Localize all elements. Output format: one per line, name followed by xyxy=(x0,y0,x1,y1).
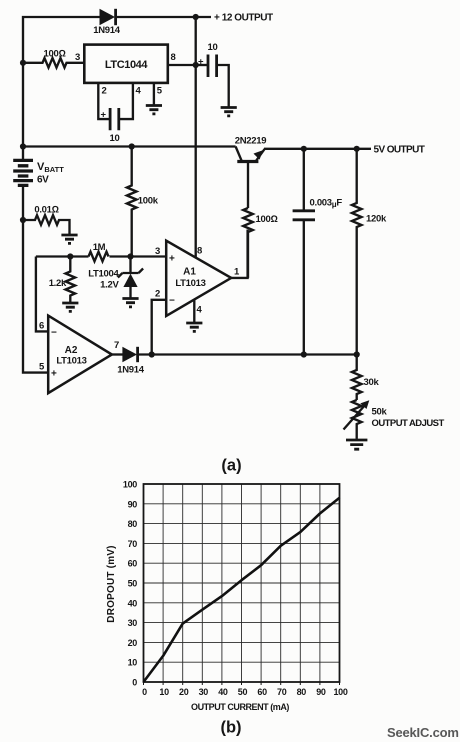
pin 2 wire xyxy=(98,83,109,119)
svg-text:40: 40 xyxy=(128,598,138,608)
svg-text:LTC1044: LTC1044 xyxy=(105,59,149,71)
IC U1 LTC1044 xyxy=(84,45,168,83)
svg-text:100Ω: 100Ω xyxy=(256,214,278,225)
ground (LT1004) xyxy=(122,299,138,307)
svg-text:DROPOUT (mV): DROPOUT (mV) xyxy=(106,545,117,622)
svg-text:6V: 6V xyxy=(37,175,49,186)
svg-text:60: 60 xyxy=(257,687,267,697)
resistor 1.2k xyxy=(66,257,76,303)
svg-text:100: 100 xyxy=(123,480,137,490)
graph y labels xyxy=(123,480,137,688)
svg-text:90: 90 xyxy=(128,499,138,509)
svg-text:4: 4 xyxy=(197,305,203,316)
svg-text:3: 3 xyxy=(75,52,80,63)
svg-text:10: 10 xyxy=(208,42,218,53)
svg-text:4: 4 xyxy=(136,86,142,97)
svg-text:0.01Ω: 0.01Ω xyxy=(34,205,58,216)
svg-text:LT1013: LT1013 xyxy=(56,356,86,367)
node 1.2k top xyxy=(67,253,73,259)
node battery top xyxy=(20,143,26,149)
wire: feedback to A2 pin 6 xyxy=(36,257,48,332)
svg-text:6: 6 xyxy=(39,321,44,332)
diode 1N914 (A2 output) xyxy=(122,347,137,362)
svg-text:1.2V: 1.2V xyxy=(100,280,119,291)
wire A2 output xyxy=(112,353,123,355)
svg-text:+: + xyxy=(51,369,57,380)
node +12 junction xyxy=(193,14,199,20)
svg-text:100Ω: 100Ω xyxy=(44,49,66,60)
svg-text:1N914: 1N914 xyxy=(93,25,121,36)
wire: bottom feedback rail xyxy=(138,353,357,355)
svg-text:40: 40 xyxy=(218,687,228,697)
svg-text:5V OUTPUT: 5V OUTPUT xyxy=(374,145,425,156)
svg-text:10: 10 xyxy=(128,658,138,668)
svg-text:10: 10 xyxy=(159,687,169,697)
resistor 0.01ohm xyxy=(23,215,70,234)
svg-text:8: 8 xyxy=(197,246,202,257)
svg-text:7: 7 xyxy=(114,340,119,351)
wire A1 pin 1 output up to 100 ohm xyxy=(231,230,247,278)
svg-text:30: 30 xyxy=(199,687,209,697)
node 0.003 bottom xyxy=(301,351,307,357)
svg-text:20: 20 xyxy=(179,687,189,697)
wire A1 pin 2 xyxy=(152,300,167,355)
graph x labels xyxy=(142,687,348,697)
svg-text:1M: 1M xyxy=(93,242,106,253)
node pin8/+12 vertical junction xyxy=(193,62,199,68)
pin 5 wire xyxy=(153,83,155,105)
svg-text:50: 50 xyxy=(128,579,138,589)
graph border xyxy=(144,484,340,682)
svg-text:100k: 100k xyxy=(138,196,159,207)
svg-text:70: 70 xyxy=(128,539,138,549)
svg-text:−: − xyxy=(51,328,57,339)
svg-text:SeekIC.com: SeekIC.com xyxy=(387,725,459,740)
node battery minus / 0.01 junction xyxy=(20,217,26,223)
ground (0.01 ohm) xyxy=(61,235,77,243)
resistor 100k xyxy=(127,147,137,257)
svg-text:A1: A1 xyxy=(183,267,196,278)
svg-text:80: 80 xyxy=(128,519,138,529)
svg-text:60: 60 xyxy=(128,559,138,569)
graph curve xyxy=(144,498,340,682)
capacitor 0.003uF xyxy=(303,149,305,211)
svg-text:2N2219: 2N2219 xyxy=(235,136,266,147)
svg-text:OUTPUT CURRENT (mA): OUTPUT CURRENT (mA) xyxy=(191,702,289,712)
svg-text:+ 12 OUTPUT: + 12 OUTPUT xyxy=(214,13,273,24)
svg-text:+: + xyxy=(198,57,204,68)
resistor 100ohm (top) xyxy=(23,58,84,68)
capacitor 10 (under LTC1044, polarized) xyxy=(110,108,119,130)
ground (1.2k) xyxy=(62,303,78,311)
node 120k/30k junction xyxy=(354,351,360,357)
svg-text:30: 30 xyxy=(128,618,138,628)
svg-text:50k: 50k xyxy=(372,407,388,418)
node: left rail / 100ohm junction xyxy=(20,60,26,66)
svg-text:50: 50 xyxy=(238,687,248,697)
graph (b): grid xyxy=(144,484,340,682)
svg-text:0: 0 xyxy=(132,678,137,688)
svg-text:20: 20 xyxy=(128,638,138,648)
wire: 5V output rail xyxy=(264,148,371,150)
svg-text:(a): (a) xyxy=(221,457,241,475)
svg-text:3: 3 xyxy=(155,246,160,257)
potentiometer 50k OUTPUT ADJUST xyxy=(352,400,362,439)
svg-text:VBATT: VBATT xyxy=(37,161,64,174)
wire: +12 vertical feed to A1 pin 8 xyxy=(195,17,197,257)
node LT1004 top xyxy=(127,253,133,259)
pin 8 wire xyxy=(168,64,196,66)
graph ticks xyxy=(144,682,340,685)
svg-text:1N914: 1N914 xyxy=(117,365,145,376)
svg-text:90: 90 xyxy=(316,687,326,697)
capacitor 10 (top right, polarized) xyxy=(196,64,208,66)
resistor 30k xyxy=(352,355,362,401)
node pin2 junction xyxy=(149,351,155,357)
wire: battery minus down to A2 pin 5 xyxy=(23,220,48,373)
svg-text:LT1013: LT1013 xyxy=(175,278,205,289)
svg-text:100: 100 xyxy=(333,687,347,697)
svg-text:5: 5 xyxy=(157,86,163,97)
svg-text:5: 5 xyxy=(39,362,45,373)
svg-text:2: 2 xyxy=(155,289,160,300)
svg-text:2: 2 xyxy=(102,86,107,97)
svg-text:0: 0 xyxy=(142,687,147,697)
ground (pot) xyxy=(346,440,367,449)
ground (top right cap) xyxy=(221,108,237,116)
ground (pin 5) xyxy=(146,106,162,114)
svg-text:8: 8 xyxy=(171,52,176,63)
wire: main 6V rail xyxy=(23,145,236,147)
resistor 120k xyxy=(352,149,362,355)
wire A1 pin 4 + ground xyxy=(193,300,195,322)
svg-text:30k: 30k xyxy=(364,377,380,388)
svg-text:+: + xyxy=(169,254,175,265)
wire: top rail from left corner to +12 node xyxy=(23,17,100,160)
svg-text:−: − xyxy=(169,296,175,307)
resistor 100ohm (base) xyxy=(243,208,253,278)
svg-text:(b): (b) xyxy=(220,719,241,737)
svg-text:80: 80 xyxy=(297,687,307,697)
svg-text:LT1004: LT1004 xyxy=(88,269,119,280)
svg-text:10: 10 xyxy=(110,133,120,144)
svg-text:120k: 120k xyxy=(366,214,387,225)
op-amp A2 LT1013 xyxy=(48,316,112,394)
svg-text:1.2k: 1.2k xyxy=(49,278,67,289)
wire: reference node row xyxy=(36,255,89,257)
svg-text:0.003μF: 0.003μF xyxy=(310,198,343,210)
op-amp A1 LT1013 xyxy=(166,241,231,316)
svg-text:1: 1 xyxy=(234,267,240,278)
pin 4 wire xyxy=(119,83,133,119)
svg-text:A2: A2 xyxy=(65,345,78,356)
battery VBATT 6V xyxy=(13,160,33,185)
node 100k top xyxy=(129,143,135,149)
resistor 1M xyxy=(89,252,109,262)
svg-text:+: + xyxy=(101,110,107,121)
svg-text:70: 70 xyxy=(277,687,287,697)
diode 1N914 (top) xyxy=(100,9,116,25)
svg-text:OUTPUT ADJUST: OUTPUT ADJUST xyxy=(372,418,445,429)
zener LT1004 1.2V xyxy=(129,257,131,274)
